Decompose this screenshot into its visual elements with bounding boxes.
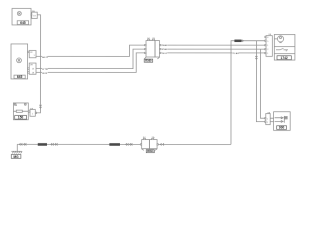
wire R580 to 1742 pin 5 ground net [161,52,265,54]
wire pin13 to R580 pin B2 [36,49,145,69]
label 645 (left-middle) [14,75,25,79]
splice arrows after box 1 [51,143,58,145]
svg-text:67 TW: 67 TW [42,69,48,71]
wire from 645 connector down to resistor connector [35,15,40,113]
component 645 module (left-middle) [11,44,28,79]
svg-text:20 LR: 20 LR [162,53,168,55]
label 150 [15,116,27,120]
svg-text:AG CF: AG CF [42,56,49,59]
label R580 [144,59,153,63]
svg-text:R580: R580 [145,59,152,63]
inline connector R580 [144,38,161,59]
svg-text:R094: R094 [147,149,154,153]
wire R580 to 1742 pin 4 with branch to 900 [161,48,265,50]
component 900 actuator [274,112,291,131]
splice arrow [242,40,243,42]
connector VB of 1742 [265,34,273,56]
svg-text:645: 645 [17,75,23,79]
label MG [11,155,21,159]
connector CF pin 1 [28,51,36,58]
splice arrows right of R094 [160,143,164,145]
svg-text:645: 645 [20,21,26,25]
splice box 1 [38,143,47,146]
wire label 67 AG [162,48,168,51]
wire label PC AG [232,52,239,55]
splice arrows on 257 vertical [255,56,257,59]
wire pin18 to R580 pin B3 [36,53,145,73]
wire R580 to 1742 pin 3 [161,44,265,46]
label 645 (top-left) [17,21,28,25]
component 150 resistor [13,103,28,120]
splice box on feed wire [234,40,241,43]
label 1742 [277,56,291,60]
wire branch down to 900 pin 1 [260,49,264,118]
svg-text:MG: MG [13,155,19,159]
ground MG [11,144,22,153]
component 645 motor (top-left) [12,8,31,25]
splice arrows left [19,143,26,145]
connector BA of 900 [265,111,274,124]
svg-text:900: 900 [279,126,285,130]
svg-text:67 AG: 67 AG [162,48,168,51]
splice arrows after box 2 [126,143,133,145]
label 900 [277,126,287,130]
connector VE pins 13 18 [28,63,36,74]
wire label 67 TW [42,68,48,71]
component 1742 pump assembly [274,34,295,60]
wire label 20 LR [162,52,168,54]
wire label 6B 18 [42,72,48,75]
svg-text:1742: 1742 [281,56,288,60]
splice box 2 [109,143,120,146]
inline connector R094 [140,136,158,150]
svg-text:20 AG: 20 AG [162,44,168,47]
wire label AG CF [42,56,49,59]
connector NA pin 18 (top-left) [31,10,37,19]
splice arrows on vertical wire [39,105,41,108]
svg-text:PC AG: PC AG [233,52,239,55]
connector NA of 150 [28,107,36,116]
wire down to 900 pin 2 [256,41,264,122]
svg-text:6B 18: 6B 18 [42,73,47,75]
label R094 [146,149,154,153]
wire label 20 AG [162,44,168,47]
svg-text:150: 150 [18,116,24,120]
wire R094 to ground riser [158,143,231,145]
ground distribution wire up from bottom [231,41,265,145]
ground wire from MG to R094 [17,143,140,145]
wire pin1 to R580 pin B1 [36,45,145,56]
